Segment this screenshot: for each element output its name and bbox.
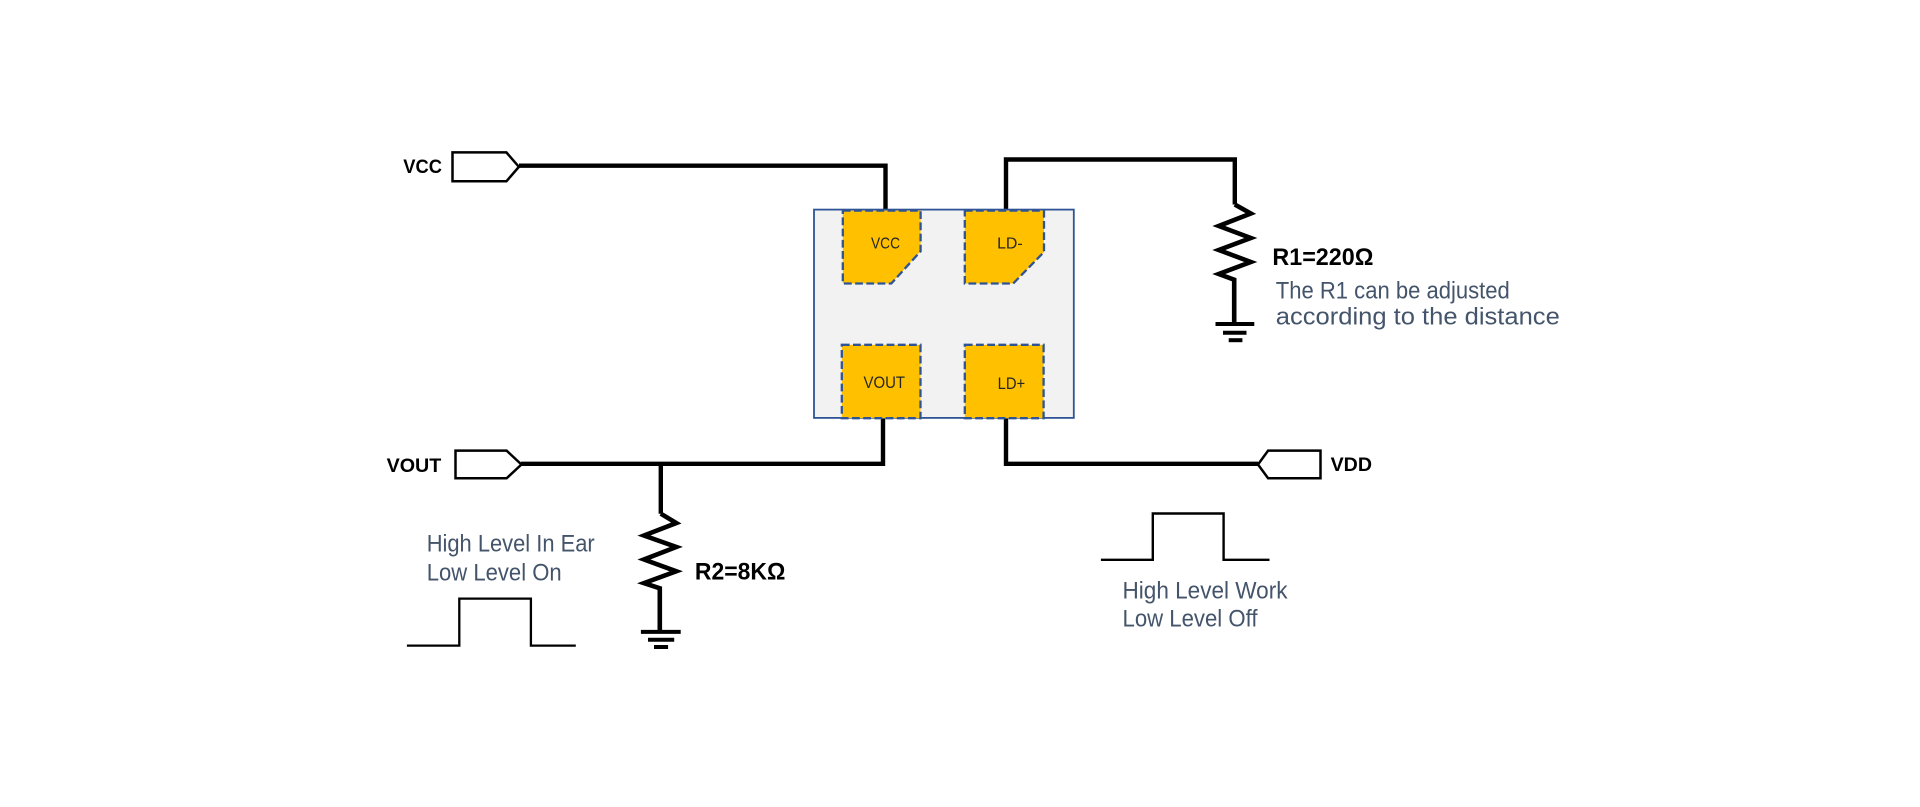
svg-text:LD+: LD+ — [998, 374, 1026, 393]
svg-text:The R1 can be adjusted: The R1 can be adjusted — [1276, 277, 1510, 304]
svg-text:VOUT: VOUT — [864, 373, 906, 392]
svg-text:Low Level On: Low Level On — [427, 559, 562, 586]
svg-text:LD-: LD- — [997, 236, 1023, 253]
svg-text:R1=220Ω: R1=220Ω — [1272, 244, 1373, 271]
svg-text:Low Level Off: Low Level Off — [1123, 606, 1258, 633]
svg-text:VCC: VCC — [871, 236, 900, 253]
svg-text:High Level Work: High Level Work — [1123, 578, 1289, 605]
svg-text:VCC: VCC — [403, 156, 442, 178]
svg-text:VOUT: VOUT — [387, 455, 442, 477]
svg-text:VDD: VDD — [1331, 454, 1372, 476]
svg-text:High Level In Ear: High Level In Ear — [427, 530, 595, 557]
svg-text:according to the distance: according to the distance — [1276, 303, 1560, 330]
svg-text:R2=8KΩ: R2=8KΩ — [695, 559, 786, 586]
